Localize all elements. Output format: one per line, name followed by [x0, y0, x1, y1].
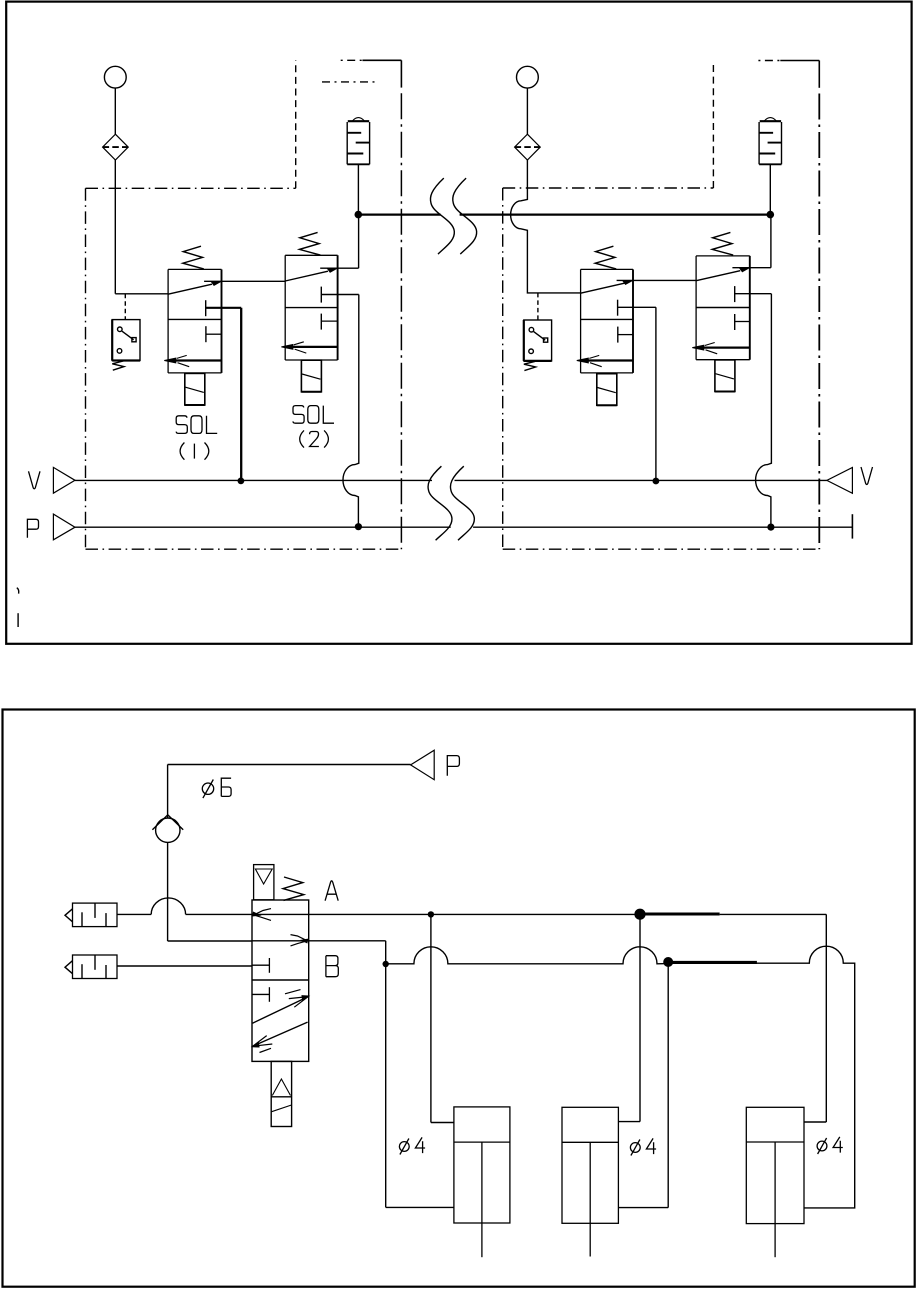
label V (left port)	[29, 471, 41, 489]
B line thick segment	[668, 961, 757, 964]
valve MV1 blocked B port (top cell)	[252, 964, 269, 966]
cylinder CYL3	[746, 1107, 804, 1223]
label diameter 4 (cyl3)	[817, 1141, 827, 1151]
valve V1 exhaust arrow	[164, 358, 176, 363]
wire silencer S2 to valve B port	[117, 965, 252, 967]
valve V4 output wire up to supply rail	[732, 267, 771, 269]
valve V2 exhaust arrow	[281, 345, 293, 350]
valve MV1 manual button	[254, 865, 274, 900]
wire P to valve MV1	[168, 940, 252, 942]
filter F2 (diamond)	[515, 134, 541, 160]
air silencer (left module)	[352, 118, 364, 121]
valve V2 spring	[299, 232, 320, 255]
valve V1 blocked port T (mid cell)	[205, 326, 207, 342]
wire filter down to valve input	[114, 160, 116, 294]
valve V4 solenoid	[715, 360, 735, 392]
junction dot on P rail (right)	[767, 524, 774, 531]
junction dot B line (cyl2, large)	[663, 957, 673, 967]
valve MV1 blocked port (bottom cell)	[252, 993, 269, 995]
wire A to cylinder 2	[639, 914, 641, 1121]
junction dot B start	[383, 961, 389, 967]
port V triangle (left)	[53, 467, 75, 493]
label diameter 4 (cyl1)	[399, 1142, 409, 1152]
A line right portion	[720, 913, 827, 915]
valve V1 output wire to V2	[204, 280, 285, 282]
P supply line (top)	[168, 764, 411, 766]
valve MV1 cross path 2 (bottom cell)	[253, 1022, 308, 1046]
wire B to cylinder 2	[667, 962, 669, 1208]
wire B output from valve	[309, 940, 386, 942]
wire filter2 down with hop over supply rail	[511, 160, 581, 293]
pressure gauge G2 (circle)	[517, 66, 539, 88]
valve V4 body (right module second valve)	[696, 255, 750, 257]
supply rail (thick)	[358, 213, 440, 215]
valve V4 blocked port T (top cell)	[734, 286, 736, 302]
junction dot supply rail right end	[767, 211, 775, 219]
wire A to cylinder 1	[430, 914, 432, 1122]
junction dot A line (cyl2, large)	[634, 909, 645, 920]
valve MV1 cross path 1 (bottom cell)	[253, 997, 309, 1024]
valve V1 blocked port T (top cell)	[205, 300, 207, 316]
stray dash-dot segment	[322, 81, 376, 83]
valve V3 exhaust arrow	[577, 358, 589, 363]
junction dot supply rail left end	[355, 211, 363, 219]
stray mark b	[17, 613, 19, 627]
check valve CV1	[156, 818, 180, 842]
silencer S2 (lower left)	[73, 955, 118, 979]
valve V2 output wire up to supply rail	[320, 267, 358, 269]
label SOL	[176, 416, 187, 434]
valve V4 exhaust arrow	[692, 345, 704, 350]
valve V1 spring	[183, 246, 204, 269]
wire V4 T-port down to P rail with hop over V rail	[756, 294, 772, 527]
wire B to cylinder 1	[385, 964, 387, 1207]
label P (left port)	[27, 519, 38, 538]
valve V3 blocked port T (mid cell)	[617, 327, 619, 343]
valve V3 flow arrow	[581, 283, 625, 293]
label (1)	[180, 443, 184, 460]
A line	[309, 913, 640, 915]
port V triangle (right)	[827, 468, 853, 494]
cylinder CYL2	[562, 1107, 618, 1223]
stray mark a	[17, 588, 19, 594]
valve MV1 path A (top cell)	[252, 913, 309, 915]
air silencer (right module)	[764, 118, 776, 121]
label B	[326, 956, 338, 977]
valve V4 blocked port T (mid cell)	[734, 314, 736, 330]
valve V3 output wire to V4	[617, 279, 697, 281]
junction dot on P rail (left)	[355, 523, 362, 530]
valve MV1 body (manual 4-port valve)	[252, 900, 309, 1061]
junction dot A line (cyl1)	[428, 911, 434, 917]
valve MV1 path P-B (top cell)	[252, 940, 309, 942]
wire check valve down	[167, 842, 169, 941]
valve V4 spring	[712, 232, 733, 255]
valve MV1 spring	[283, 877, 304, 900]
label V (right port)	[861, 467, 873, 485]
port P triangle (panel 2)	[411, 750, 435, 780]
wire P line down to check valve	[167, 765, 169, 819]
valve V2 flow arrow	[285, 271, 328, 281]
valve V3 spring	[595, 246, 616, 269]
enclosure boundary (right valve unit, dash-dot)	[503, 187, 714, 189]
enclosure boundary (left valve unit, dash-dot)	[86, 187, 296, 189]
P rail end plug	[851, 514, 853, 538]
pressure gauge G1 (circle)	[104, 66, 126, 88]
break mark on V/P rails (left curve)	[428, 466, 452, 540]
valve MV1 exhaust silencer	[271, 1061, 291, 1126]
V rail	[75, 479, 432, 481]
valve V2 blocked port T (top cell)	[320, 287, 322, 303]
junction dot on V rail (left)	[238, 478, 245, 485]
wire V2 T-port down to P rail with hop over V rail	[343, 295, 359, 527]
label (2)	[300, 430, 304, 447]
pilot line to pressure switch (dashed)	[124, 294, 126, 320]
wire gauge2 to filter2	[526, 88, 528, 134]
pressure switch PS1	[112, 320, 140, 361]
valve V3 body (right module first valve)	[581, 268, 633, 270]
wire V3 T-port down to V rail	[655, 307, 657, 479]
panel 1 frame	[6, 2, 911, 644]
valve V1 solenoid SOL(1)	[185, 373, 205, 405]
label SOL (2)	[293, 406, 304, 424]
wire silencer S1 to A line with hop over P wire	[117, 913, 151, 915]
pilot line to pressure switch 2 (dashed)	[537, 293, 539, 320]
wire gauge to filter	[114, 88, 116, 134]
A line thick segment	[640, 912, 720, 915]
break mark on supply rail (left curve)	[430, 178, 454, 254]
valve V2 body (SOL 2 3-port valve)	[285, 254, 337, 256]
B line with hops	[386, 947, 669, 964]
valve V4 flow arrow	[696, 271, 740, 281]
pressure switch PS2	[524, 320, 552, 361]
valve V3 blocked port T (top cell)	[617, 300, 619, 316]
valve V3 solenoid	[597, 374, 617, 406]
label diameter 6	[202, 783, 213, 794]
junction dot on V rail (right)	[653, 478, 660, 485]
wire V1 T-port down to V rail (thick)	[240, 308, 242, 480]
panel 2 frame	[3, 710, 915, 1287]
valve V1 flow arrow	[168, 284, 212, 294]
filter F1 (diamond)	[103, 134, 129, 160]
cylinder CYL1	[454, 1107, 510, 1223]
wire silencer2 to supply rail	[769, 164, 771, 214]
label diameter 4 (cyl2)	[630, 1143, 640, 1153]
label P (panel 2)	[447, 756, 459, 776]
label A	[325, 881, 338, 901]
valve V2 blocked port T (mid cell)	[320, 314, 322, 330]
break mark on V/P rails (right curve)	[450, 466, 474, 540]
P rail	[75, 526, 451, 528]
silencer S1 (upper left)	[73, 903, 118, 927]
valve V1 body (SOL 1 3-port valve)	[168, 268, 221, 270]
port P triangle (left)	[53, 514, 75, 540]
valve V2 solenoid SOL(2)	[301, 360, 321, 392]
break mark on supply rail (right curve)	[453, 178, 477, 254]
wire silencer to supply rail	[357, 164, 359, 214]
